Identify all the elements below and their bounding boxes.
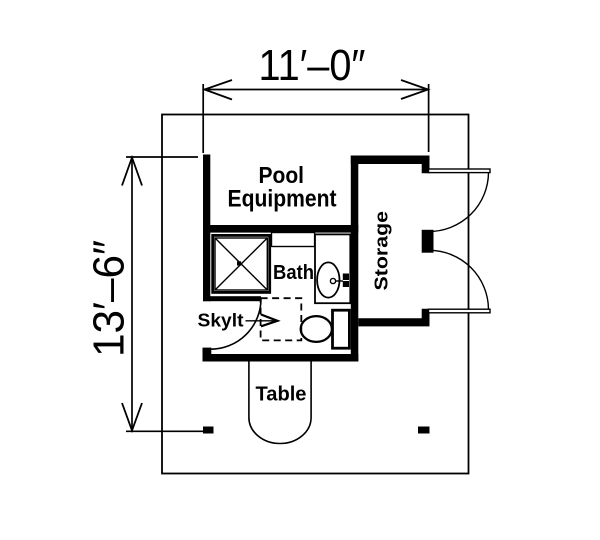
dimension line 11'-0" (204, 89, 429, 91)
deck outline (162, 115, 469, 474)
skylight dashed outline (261, 298, 302, 340)
dimension extension line right (top) (428, 84, 430, 152)
arrowhead top of 13'-6" dimension (122, 158, 142, 186)
toilet tank (333, 310, 350, 348)
toilet bowl (301, 316, 332, 342)
svg-text:Skylt: Skylt (198, 311, 244, 331)
svg-text:11′–0″: 11′–0″ (259, 41, 366, 90)
dimension extension line bottom (left) (126, 430, 203, 432)
wall between Pool Equipment and Bath (203, 225, 358, 233)
label Pool Equipment (228, 162, 337, 212)
label Skylt (198, 311, 244, 331)
wall between Bath and Storage (351, 156, 359, 362)
wall south of Storage (358, 309, 429, 327)
arrowhead left of 11'-0" dimension (205, 80, 233, 100)
door swing arc upper (429, 173, 489, 232)
shelf above Bath (272, 233, 315, 247)
dimension text 13'-6" (85, 240, 134, 357)
dimension extension line top (left) (126, 156, 198, 158)
svg-text:Storage: Storage (371, 211, 392, 291)
svg-text:13′–6″: 13′–6″ (85, 240, 134, 357)
wall southwest corner block (203, 348, 212, 362)
door leaf lower (storage double door) (429, 309, 491, 313)
dimension text 11'-0" (259, 41, 366, 90)
door leaf upper (storage double door) (429, 169, 491, 173)
shower stall (213, 235, 270, 292)
bath door leaf (209, 296, 261, 301)
wall stub between double doors (422, 230, 434, 253)
sink counter (315, 234, 350, 303)
leader arrowhead for Skylt (261, 315, 278, 327)
arrowhead bottom of 13'-6" dimension (122, 403, 142, 431)
dimension line 13'-6" (131, 157, 133, 431)
sink basin (317, 262, 349, 297)
svg-text:Bath: Bath (273, 262, 314, 284)
door swing arc lower (429, 250, 489, 309)
bath door swing arc (211, 299, 262, 350)
label Storage (rotated) (371, 211, 392, 291)
post right (418, 427, 430, 434)
wall west (left exterior wall) (203, 155, 210, 302)
post left (203, 427, 214, 434)
svg-text:Pool: Pool (259, 162, 305, 188)
label Table (256, 384, 307, 406)
arrowhead right of 11'-0" dimension (401, 80, 428, 99)
svg-text:Equipment: Equipment (228, 186, 337, 213)
svg-text:Table: Table (256, 384, 307, 406)
label Bath (273, 262, 314, 284)
dimension extension line left (top) (202, 84, 204, 153)
table outline (249, 362, 311, 444)
wall north of Storage (351, 156, 430, 174)
leader line for Skylt (246, 320, 278, 322)
wall south (bottom exterior wall) (203, 354, 359, 362)
